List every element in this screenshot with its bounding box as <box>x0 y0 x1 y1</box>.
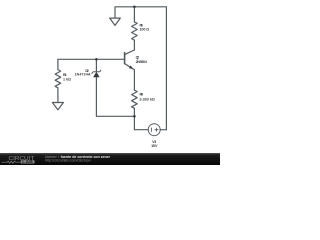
resistor R6 lead top <box>133 7 135 22</box>
svg-text:LAB: LAB <box>22 160 34 164</box>
bar contents <box>0 153 220 166</box>
wire zener bottom return <box>96 77 134 116</box>
wire bottom leg to V3 <box>134 116 148 129</box>
junction node C return <box>133 115 136 118</box>
resistor R6 body <box>132 22 138 40</box>
wire R4 to ground <box>57 88 59 103</box>
resistor R8 body <box>132 90 138 108</box>
wire right rail <box>165 7 167 130</box>
caption bar <box>0 153 220 166</box>
ground GND2 bottom <box>52 103 63 110</box>
wire zener top lead <box>95 59 97 71</box>
svg-text:15 V: 15 V <box>151 144 158 148</box>
wire emitter rail <box>133 70 135 90</box>
junction node A top <box>133 6 136 9</box>
svg-text:Q2: Q2 <box>136 56 139 60</box>
resistor R4 body <box>55 70 61 88</box>
logo resistor squiggle <box>2 161 21 163</box>
svg-text:R8: R8 <box>140 93 144 97</box>
svg-text:http://circuitlab.com/c8u3qvx: http://circuitlab.com/c8u3qvx <box>45 158 91 162</box>
svg-text:100 Ω: 100 Ω <box>140 28 150 32</box>
svg-text:3.333 kΩ: 3.333 kΩ <box>140 97 155 101</box>
voltage source V3 <box>148 124 160 136</box>
left rail <box>57 59 59 69</box>
logo LAB box <box>21 160 35 163</box>
svg-text:1N4734A: 1N4734A <box>75 73 91 77</box>
wire top rail <box>115 7 166 18</box>
wire R8 bottom lead <box>133 108 135 116</box>
ground GND1 top <box>110 18 121 25</box>
wire V3 to right rail <box>160 129 166 131</box>
zener diode D2 <box>92 70 101 77</box>
svg-text:1 kΩ: 1 kΩ <box>63 77 71 81</box>
junction node B base/zener <box>95 58 98 61</box>
svg-text:R4: R4 <box>63 73 67 77</box>
transistor Q2 <box>125 50 135 70</box>
schematic canvas <box>0 0 220 165</box>
svg-text:2N3904: 2N3904 <box>136 60 148 64</box>
wire base net <box>58 58 125 60</box>
wire R6 to collector <box>133 40 135 50</box>
